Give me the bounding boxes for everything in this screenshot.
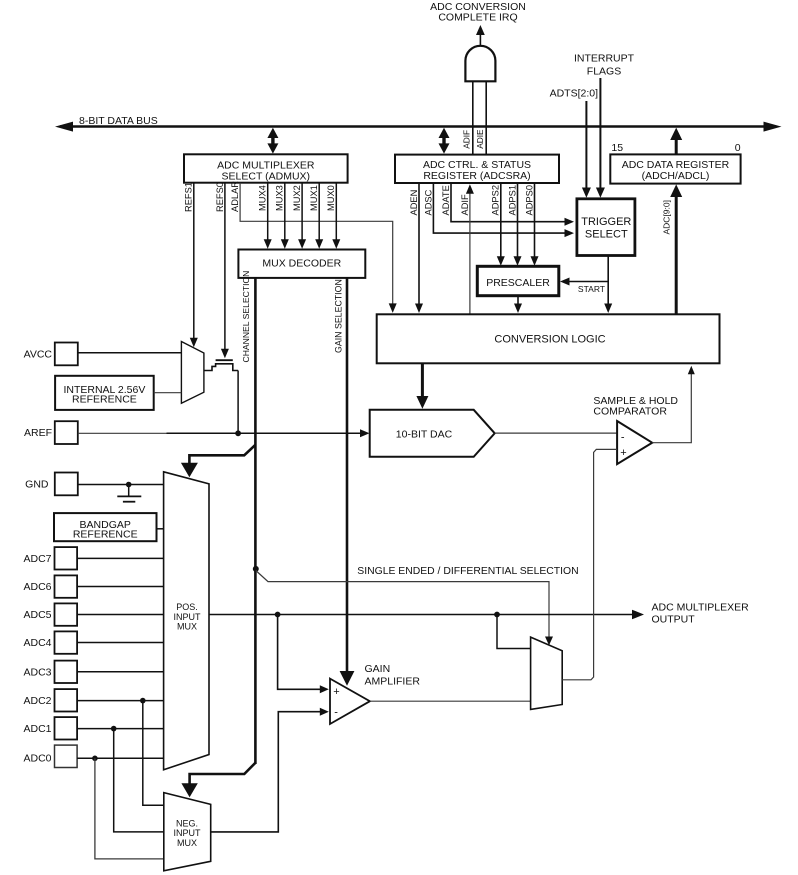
svg-text:SELECT (ADMUX): SELECT (ADMUX)	[222, 170, 311, 182]
svg-text:MUX1: MUX1	[309, 185, 319, 211]
svg-text:ADATE: ADATE	[441, 185, 451, 215]
wire ADC7 to pos input mux	[77, 557, 164, 559]
svg-text:MUX3: MUX3	[275, 185, 285, 211]
wire DAC to comparator minus	[495, 432, 617, 434]
wire MUX0	[332, 183, 340, 249]
svg-text:OUTPUT: OUTPUT	[652, 613, 696, 625]
wire gain selection	[346, 278, 349, 671]
svg-text:ADPS1: ADPS1	[507, 185, 517, 216]
wire ADLAR	[240, 183, 397, 313]
pad ADC4	[23, 631, 77, 653]
wire ADC3 to pos input mux	[77, 671, 164, 673]
wire pos mux output to adc multiplexer output	[209, 610, 644, 620]
svg-text:REGISTER (ADCSRA): REGISTER (ADCSRA)	[423, 170, 530, 182]
svg-text:GND: GND	[25, 478, 49, 490]
node AREF junction	[235, 430, 241, 436]
label SAMPLE & HOLD COMPARATOR	[593, 395, 678, 417]
svg-text:CHANNEL SELECTION: CHANNEL SELECTION	[241, 271, 251, 363]
wire ADC2 to pos input mux	[77, 700, 164, 702]
wire 8-bit data bus	[55, 122, 782, 132]
wire start to prescaler	[560, 278, 608, 286]
svg-text:ADPS0: ADPS0	[524, 185, 534, 216]
block INTERNAL 2.56V REFERENCE	[55, 376, 154, 410]
svg-text:PRESCALER: PRESCALER	[486, 277, 550, 289]
block 10-BIT DAC	[370, 410, 495, 457]
wire MUX4	[264, 183, 272, 249]
svg-text:SELECT: SELECT	[585, 228, 628, 240]
svg-text:REFS1: REFS1	[184, 182, 194, 212]
mux reference selector	[181, 342, 204, 404]
arrow conversion logic to 10-bit DAC	[416, 363, 428, 409]
op-amp gain amplifier	[330, 679, 370, 724]
svg-text:CONVERSION LOGIC: CONVERSION LOGIC	[494, 333, 605, 345]
wire ADC1 to neg input mux	[114, 729, 164, 832]
wire channel selection	[254, 278, 257, 764]
svg-text:8-BIT DATA BUS: 8-BIT DATA BUS	[79, 115, 158, 127]
wire ADIE to gate	[485, 81, 487, 154]
pad ADC6	[23, 575, 77, 597]
mux output selector	[531, 637, 563, 709]
bidirectional arrow bus to ADCSRA	[439, 128, 450, 154]
svg-text:INPUT: INPUT	[174, 612, 202, 622]
svg-text:(ADCH/ADCL): (ADCH/ADCL)	[642, 170, 710, 182]
block BANDGAP REFERENCE	[54, 513, 157, 541]
svg-text:AREF: AREF	[24, 427, 52, 439]
block PRESCALER	[477, 266, 559, 295]
svg-text:MUX: MUX	[177, 622, 197, 632]
label INTERRUPT FLAGS	[574, 53, 635, 78]
svg-text:+: +	[620, 447, 626, 459]
wire AVCC to reference mux	[78, 352, 182, 354]
wire ADC0 to neg input mux	[95, 758, 164, 859]
wire ADEN	[415, 183, 423, 313]
svg-text:ADC7: ADC7	[23, 553, 51, 565]
wire ADATE	[451, 183, 574, 225]
arrow gain selection into gain amplifier	[340, 671, 355, 686]
svg-text:NEG.: NEG.	[176, 818, 198, 828]
pad ADC3	[23, 661, 77, 683]
register ADC data register	[610, 154, 740, 183]
svg-text:COMPARATOR: COMPARATOR	[593, 405, 667, 417]
wire output mux to comparator plus	[562, 449, 617, 679]
svg-text:ADIF: ADIF	[460, 194, 470, 215]
wire ADC5 to pos input mux	[77, 614, 164, 616]
svg-text:START: START	[578, 284, 605, 294]
block CONVERSION LOGIC	[377, 314, 720, 363]
wire ADPS1	[514, 183, 522, 265]
svg-text:AVCC: AVCC	[24, 348, 53, 360]
wire ADC4 to pos input mux	[77, 642, 164, 644]
arrow selection into output mux	[545, 637, 553, 646]
mux POS INPUT MUX	[164, 472, 209, 770]
wire ADTS left into trigger select	[582, 101, 591, 198]
svg-text:10-BIT DAC: 10-BIT DAC	[396, 429, 453, 441]
wire ADIF vertical	[466, 184, 474, 314]
wire AREF to DAC	[78, 429, 370, 437]
wire ADIF to gate	[472, 81, 474, 154]
bidirectional arrow bus to ADMUX	[267, 128, 278, 154]
pad ADC5	[23, 603, 77, 625]
wire gain amplifier output to output mux	[370, 700, 531, 702]
node GND junction	[126, 482, 132, 488]
pad AREF	[24, 421, 78, 444]
register ADCSRA	[395, 155, 559, 183]
pad AVCC	[24, 343, 78, 366]
wire ADC0 to pos input mux	[77, 757, 164, 759]
wire prescaler to conversion logic	[514, 296, 522, 313]
wire REFS1	[190, 183, 198, 348]
svg-text:ADSC: ADSC	[423, 189, 433, 215]
svg-text:SINGLE ENDED / DIFFERENTIAL SE: SINGLE ENDED / DIFFERENTIAL SELECTION	[357, 566, 578, 577]
label ADC CONVERSION COMPLETE IRQ	[430, 1, 526, 24]
node pos mux output junction right	[494, 612, 500, 618]
transistor pass gate	[204, 360, 238, 370]
wire MUX1	[315, 183, 323, 249]
wire ADC6 to pos input mux	[77, 586, 164, 588]
pad GND	[25, 473, 78, 496]
wire pos mux output to gain amplifier plus	[278, 615, 329, 694]
wire transistor to AREF node	[237, 371, 239, 434]
arrow channel selection into pos input mux	[181, 445, 256, 477]
wire MUX2	[298, 183, 306, 249]
and-gate IRQ	[465, 25, 495, 81]
svg-text:MUX: MUX	[177, 838, 197, 848]
node ADC2 junction	[140, 698, 146, 704]
svg-text:ADIF: ADIF	[461, 130, 471, 149]
svg-text:AMPLIFIER: AMPLIFIER	[365, 675, 421, 687]
svg-text:ADC3: ADC3	[23, 666, 51, 678]
block TRIGGER SELECT	[577, 199, 635, 256]
svg-text:TRIGGER: TRIGGER	[581, 216, 631, 228]
svg-text:FLAGS: FLAGS	[587, 66, 621, 78]
op-amp sample and hold comparator	[617, 421, 652, 464]
svg-text:ADC2: ADC2	[23, 695, 51, 707]
svg-text:ADPS2: ADPS2	[491, 185, 501, 216]
wire ADPS2	[497, 183, 505, 265]
svg-text:ADC1: ADC1	[23, 723, 51, 735]
svg-text:REFERENCE: REFERENCE	[72, 394, 137, 406]
svg-text:MUX DECODER: MUX DECODER	[262, 258, 341, 270]
label GAIN AMPLIFIER	[365, 663, 421, 687]
svg-text:ADC5: ADC5	[23, 609, 51, 621]
node pos mux output junction left	[275, 612, 281, 618]
node channel selection junction	[253, 566, 259, 572]
node ADC0 junction	[92, 756, 98, 762]
block MUX DECODER	[238, 250, 365, 278]
label ADC MULTIPLEXER OUTPUT	[652, 601, 750, 625]
svg-text:ADC6: ADC6	[23, 581, 51, 593]
pad ADC1	[23, 717, 77, 739]
pad ADC2	[23, 689, 77, 711]
arrow ADC data register to bus	[670, 128, 682, 155]
wire ADPS0	[531, 183, 539, 265]
wire neg mux output to gain amplifier minus	[211, 708, 329, 832]
svg-text:REFERENCE: REFERENCE	[73, 529, 138, 541]
svg-text:MUX0: MUX0	[326, 185, 336, 211]
svg-text:GAIN SELECTION: GAIN SELECTION	[334, 279, 344, 353]
svg-text:15: 15	[611, 142, 623, 154]
wire MUX3	[281, 183, 289, 249]
svg-text:-: -	[334, 707, 338, 719]
wire bandgap to pos input mux	[157, 528, 164, 530]
svg-text:0: 0	[735, 142, 741, 154]
svg-text:COMPLETE IRQ: COMPLETE IRQ	[438, 12, 517, 24]
wire junction to output mux	[497, 615, 531, 649]
wire ADC2 to neg input mux	[143, 701, 164, 806]
svg-text:INTERRUPT: INTERRUPT	[574, 53, 635, 65]
svg-text:-: -	[621, 432, 625, 444]
wire ADSC	[433, 183, 574, 237]
arrow channel selection into neg input mux	[181, 763, 255, 798]
wire single ended / differential selection	[256, 571, 549, 641]
wire comparator output to conversion logic	[652, 366, 695, 443]
svg-text:MUX4: MUX4	[258, 185, 268, 211]
svg-text:POS.: POS.	[176, 602, 198, 612]
ground	[117, 485, 141, 502]
mux NEG INPUT MUX	[164, 793, 211, 871]
wire ADTS right into trigger select	[596, 78, 605, 198]
wire REFS0	[221, 183, 229, 359]
svg-text:+: +	[333, 686, 339, 698]
svg-text:MUX2: MUX2	[292, 185, 302, 211]
wire ADC1 to pos input mux	[77, 728, 164, 730]
pad ADC0	[23, 745, 77, 767]
svg-text:ADTS[2:0]: ADTS[2:0]	[550, 88, 599, 100]
svg-text:ADC4: ADC4	[23, 637, 51, 649]
svg-text:ADLAR: ADLAR	[230, 181, 240, 212]
svg-text:INPUT: INPUT	[174, 828, 202, 838]
register ADMUX	[184, 154, 348, 182]
wire trigger select to conversion logic	[604, 256, 612, 314]
wire GND to pos input mux	[78, 484, 164, 486]
arrow ADC[9:0] conversion logic to data register	[670, 184, 682, 314]
wire internal reference to mux	[154, 392, 182, 394]
svg-text:ADC[9:0]: ADC[9:0]	[662, 200, 672, 235]
svg-text:ADC MULTIPLEXER: ADC MULTIPLEXER	[652, 601, 750, 613]
svg-text:REFS0: REFS0	[215, 182, 225, 212]
svg-text:ADC0: ADC0	[23, 752, 51, 764]
pad ADC7	[23, 547, 77, 569]
node ADC1 junction	[111, 726, 117, 732]
svg-text:GAIN: GAIN	[365, 663, 391, 675]
svg-text:ADIE: ADIE	[475, 129, 485, 149]
svg-text:ADEN: ADEN	[409, 190, 419, 216]
